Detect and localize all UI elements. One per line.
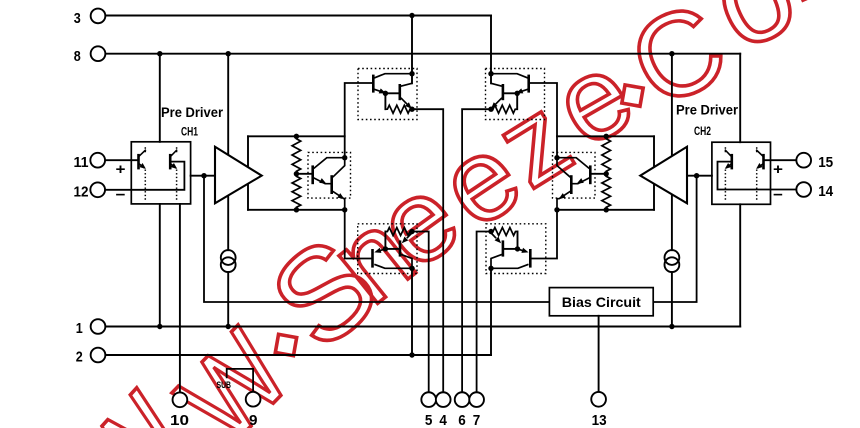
- junction pin-8 rail / current source I2: [669, 51, 674, 56]
- transistor Q14 (CH2 upper darlington output): [491, 83, 503, 109]
- junction R8 / Q16 emitter / pin-7 node: [488, 229, 493, 234]
- svg-text:12: 12: [74, 183, 89, 200]
- resistor R4 (CH1 lower darlington): [385, 228, 412, 236]
- pin 15: [796, 153, 833, 171]
- junction top rail / R5: [604, 134, 609, 139]
- svg-text:11: 11: [74, 154, 89, 171]
- wire pin-8 down to current source I2: [671, 54, 673, 251]
- junction Q5/Q6 collector node: [409, 71, 414, 76]
- current source I1 (CH1): [221, 250, 236, 272]
- wire pin-15 input to Q9 base: [765, 159, 797, 161]
- transistor Q8 (CH1 lower darlington output): [400, 233, 412, 268]
- junction R5-R6 node: [604, 171, 609, 176]
- resistor R8 (CH2 lower darlington): [491, 228, 518, 236]
- pin 7: [469, 392, 484, 428]
- svg-text:3: 3: [74, 10, 81, 27]
- junction top rail / R1: [294, 134, 299, 139]
- junction bottom rail / Q12 emitter: [554, 207, 559, 212]
- wire current source I1 to pin-1 rail: [227, 272, 229, 327]
- wire pin-3 rail: [105, 15, 491, 17]
- svg-text:7: 7: [473, 412, 481, 428]
- svg-text:1: 1: [76, 320, 83, 337]
- wire amp A2 input node to bias circuit: [653, 176, 696, 302]
- wire pin-14 input route: [718, 162, 797, 190]
- transistor Q9 (pre-driver CH2 right): [756, 147, 763, 200]
- junction pin-2 rail / CH1 lower darlington: [409, 352, 414, 357]
- wire R5-R6 node to Q11 base: [591, 173, 606, 175]
- wire pin-12 input route: [105, 162, 184, 190]
- dotted enclosure CH1 lower darlington: [358, 224, 417, 274]
- svg-text:2: 2: [76, 349, 83, 366]
- wire CH1 upper output to pin 4: [412, 109, 443, 392]
- junction Q3/Q4 collector node: [342, 155, 347, 160]
- wire node to resistor R8: [517, 232, 519, 249]
- wire R1-R2 node to Q3 base: [296, 173, 311, 175]
- wire node to resistor R4: [384, 232, 386, 249]
- pin 13: [591, 392, 606, 428]
- svg-text:SUB: SUB: [217, 380, 232, 391]
- junction amp A1 input node: [201, 173, 206, 178]
- junction Q5 emitter / Q6 base node: [383, 91, 388, 96]
- svg-text:Bias Circuit: Bias Circuit: [562, 295, 642, 310]
- junction Q14 emitter / R7 / pin-6 node: [488, 107, 493, 112]
- transistor Q13 (CH2 upper darlington input): [491, 74, 529, 94]
- transistor Q4 (CH1 driver darlington output): [332, 158, 345, 210]
- transistor Q2 (pre-driver CH1 right): [170, 147, 177, 200]
- junction Q6 emitter / R3 / pin-4 node: [409, 107, 414, 112]
- svg-text:−: −: [773, 187, 783, 204]
- wire pre-driver CH1 bottom to pin 10: [179, 204, 181, 393]
- junction bottom rail / R2: [294, 207, 299, 212]
- wire CH1 stage left edge: [247, 136, 249, 210]
- wire pre-driver CH1 bottom to pin-1 rail: [159, 204, 161, 327]
- svg-text:5: 5: [425, 412, 433, 428]
- wire pin-8 rail corner down to pre-driver CH2: [739, 54, 741, 143]
- wire CH1 stage bottom rail: [248, 209, 345, 211]
- transistor Q5 (CH1 upper darlington input): [373, 74, 412, 94]
- transistor Q1 (pre-driver CH1 left): [139, 147, 146, 200]
- wire CH2 lower output to pin 7: [477, 232, 491, 393]
- transistor Q6 (CH1 upper darlington output): [400, 83, 412, 109]
- wire CH2 upper output to pin 6: [462, 109, 491, 392]
- junction Q13/Q14 collector node: [488, 71, 493, 76]
- resistor R3 (CH1 upper darlington): [385, 105, 412, 113]
- wire Q6 collector stub: [411, 74, 413, 84]
- pin 1: [76, 319, 106, 337]
- wire pin-3 rail corner down to CH2 upper darlington: [490, 16, 492, 74]
- junction Q11/Q12 collector node: [554, 155, 559, 160]
- wire node to resistor R7: [516, 93, 518, 109]
- pin 5: [421, 392, 436, 428]
- svg-text:+: +: [116, 161, 126, 178]
- svg-text:13: 13: [592, 412, 607, 428]
- svg-text:9: 9: [249, 412, 258, 428]
- pin 8: [74, 46, 106, 64]
- junction pin-8 rail / pre-driver CH1: [157, 51, 162, 56]
- svg-text:+: +: [773, 161, 783, 178]
- wire pin-9 to SUB node: [227, 369, 253, 392]
- current source I2 (CH2): [665, 250, 680, 272]
- dotted enclosure CH2 upper darlington: [486, 69, 545, 120]
- wire pin-11 input to Q1 base: [105, 159, 137, 161]
- transistor Q3 (CH1 driver darlington input): [313, 158, 345, 185]
- junction bottom rail / R6: [604, 207, 609, 212]
- wire pin-1 rail: [105, 326, 740, 328]
- junction Q15 emitter / Q16 base node: [515, 246, 520, 251]
- wire pin-8 down to current source I1: [227, 54, 229, 251]
- junction R4 / Q8 emitter / pin-5 node: [409, 229, 414, 234]
- transistor Q7 (CH1 lower darlington input): [373, 248, 413, 269]
- wire pin-8 rail: [105, 53, 740, 55]
- block Pre Driver CH2 box: [712, 142, 771, 204]
- junction Q15/Q16 collector node: [488, 266, 493, 271]
- wire Q5 emitter to Q6 base: [385, 92, 398, 94]
- junction pin-1 rail / current source I1: [226, 324, 231, 329]
- pin 2: [76, 348, 106, 366]
- junction amp A2 input node: [694, 173, 699, 178]
- junction bottom rail / Q4 emitter: [342, 207, 347, 212]
- resistor R1 (CH1 upper): [292, 136, 301, 174]
- transistor Q10 (pre-driver CH2 left): [725, 147, 732, 200]
- wire Q11 collector node up to upper darlington base: [530, 83, 557, 158]
- svg-text:10: 10: [170, 412, 189, 428]
- wire from pin-3 rail down to CH1 upper darlington: [411, 16, 413, 74]
- resistor R2 (CH1 lower): [292, 174, 301, 210]
- wire Q13 emitter to Q14 base: [504, 92, 517, 94]
- resistor R6 (CH2 lower): [602, 174, 611, 210]
- pin 12: [74, 182, 106, 200]
- resistor R5 (CH2 upper): [602, 136, 611, 174]
- block Bias Circuit box: [549, 288, 653, 316]
- wire CH2 bottom rail to lower darlington base: [531, 210, 557, 259]
- svg-text:6: 6: [458, 412, 466, 428]
- wire CH2 stage top rail: [557, 135, 654, 137]
- wire pin-2 rail corner up to CH2 lower darlington: [490, 268, 492, 355]
- svg-text:4: 4: [439, 412, 447, 428]
- wire current source I2 to pin-1 rail: [671, 272, 673, 327]
- wire Q3 collector node up to upper darlington base: [345, 83, 373, 158]
- junction R1-R2 node: [294, 171, 299, 176]
- wire pin-2 rail: [105, 354, 491, 356]
- junction on pin-3 rail at upper darlington CH1: [409, 13, 414, 18]
- resistor R7 (CH2 upper darlington): [491, 105, 517, 113]
- dotted enclosure CH2 lower darlington: [486, 224, 546, 274]
- transistor Q11 (CH2 driver darlington input): [557, 158, 590, 185]
- junction Q13 emitter / Q14 base node: [515, 91, 520, 96]
- wire CH1 lower darlington to pin-2 rail: [411, 268, 413, 355]
- wire pin-8 to pre-driver CH1 top: [159, 54, 161, 142]
- wire CH2 stage right edge: [653, 136, 655, 210]
- svg-text:CH1: CH1: [181, 125, 198, 139]
- block Pre Driver CH1 box: [131, 142, 190, 204]
- transistor Q12 (CH2 driver darlington output): [557, 158, 571, 210]
- junction pin-1 rail / pre-driver CH1: [157, 324, 162, 329]
- junction Q7/Q8 collector node: [409, 266, 414, 271]
- pin 10: [170, 392, 189, 428]
- svg-text:8: 8: [74, 48, 81, 65]
- wire Q15 emitter to Q16 base: [504, 248, 518, 250]
- wire pre-driver CH2 output to amp A2: [687, 175, 712, 177]
- pin 6: [455, 392, 470, 428]
- dotted enclosure CH2 driver darlington: [553, 152, 596, 198]
- dotted enclosure CH1 upper darlington: [358, 69, 417, 120]
- wire CH1 lower output to pin 5: [412, 232, 429, 393]
- svg-text:CH2: CH2: [694, 124, 711, 138]
- wire CH2 stage bottom rail: [557, 209, 654, 211]
- pin 3: [74, 9, 106, 27]
- wire bias circuit to pin 13: [598, 316, 600, 392]
- svg-text:Pre Driver: Pre Driver: [161, 105, 224, 120]
- svg-text:15: 15: [818, 154, 833, 171]
- pin 14: [796, 182, 833, 200]
- junction pin-8 rail / current source I1: [226, 51, 231, 56]
- wire node to resistor R3: [384, 93, 386, 109]
- svg-text:Pre Driver: Pre Driver: [676, 103, 739, 118]
- wire amp A1 input node to bias circuit: [204, 176, 549, 302]
- pin 4: [436, 392, 451, 428]
- junction pin-1 rail / current source I2: [669, 324, 674, 329]
- svg-text:14: 14: [818, 183, 834, 200]
- svg-text:−: −: [116, 187, 126, 204]
- transistor Q16 (CH2 lower darlington output): [491, 233, 503, 268]
- wire Q14 collector stub: [490, 74, 492, 84]
- wire Q7 emitter to Q8 base: [385, 248, 399, 250]
- junction Q7 emitter / Q8 base node: [383, 246, 388, 251]
- dotted enclosure CH1 driver darlington: [308, 152, 351, 198]
- op-amp A2 (CH2 driver): [640, 147, 687, 204]
- pin 11: [74, 153, 106, 171]
- wire CH1 bottom rail to lower darlington base: [345, 210, 372, 259]
- op-amp A1 (CH1 driver): [215, 147, 262, 204]
- pin 9: [246, 392, 261, 428]
- transistor Q15 (CH2 lower darlington input): [491, 248, 530, 269]
- wire pre-driver CH1 output to amp A1: [191, 175, 215, 177]
- wire pin-1 rail corner up to pre-driver CH2 bottom: [739, 204, 741, 326]
- wire CH1 stage top rail: [248, 135, 345, 137]
